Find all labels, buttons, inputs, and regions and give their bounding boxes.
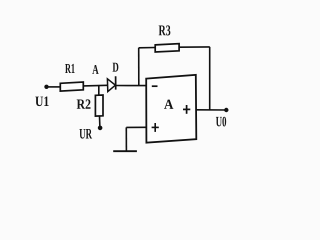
resistor R1 [60,82,83,91]
op-amp U (box) [146,75,196,143]
wire feedback vertical left [138,48,140,86]
wire R3 to right corner [179,46,210,48]
pin + (output polarity mark) [183,105,190,114]
label A (op-amp gain) [164,100,173,109]
wire R1 to diode [83,84,107,87]
wire node A down to R2 [98,86,100,96]
pin - (inverting input mark) [152,85,158,87]
label U0 [216,117,226,127]
resistor R3 [155,44,179,52]
wire feedback vertical right [209,47,211,110]
ground [113,127,137,151]
label A (node) [92,65,98,74]
label D [113,63,119,72]
wire R2 to UR terminal [99,116,101,128]
label UR [79,129,92,139]
wire diode to op-amp inverting input [116,85,147,87]
label R1 [65,64,74,73]
resistor R2 [95,95,103,116]
wire op-amp output to U0 [196,109,226,111]
node UR terminal dot [98,126,103,131]
pin + (non-inverting input mark) [152,123,159,132]
label R3 [159,25,171,35]
wire feedback top-left to R3 [139,47,156,49]
wire U1 to R1 [47,86,61,88]
label U1 [35,97,48,107]
wire ground to non-inverting input [126,126,146,128]
label R2 [77,99,91,108]
diode D [107,76,115,91]
node U1 terminal dot [44,85,48,89]
node U0 terminal dot [224,108,228,112]
